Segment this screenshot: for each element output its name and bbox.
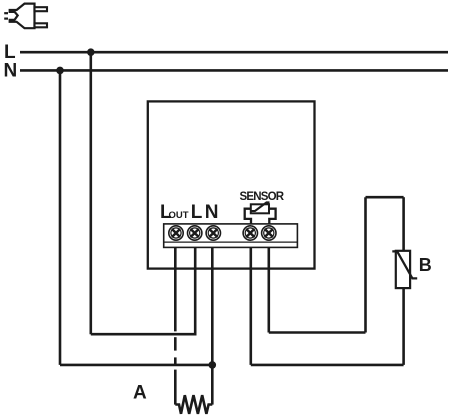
- sensor thermistor diagonal stroke: [252, 202, 270, 211]
- thermistor B diagonal stroke: [392, 251, 417, 278]
- wire: from N line down left side: [59, 70, 62, 365]
- terminal strip: [164, 224, 298, 248]
- wire: sensor inner run right: [269, 331, 366, 334]
- svg-text:N: N: [205, 202, 219, 223]
- svg-text:OUT: OUT: [169, 210, 189, 221]
- wire: terminal N down to load: [211, 247, 214, 405]
- svg-text:SENSOR: SENSOR: [240, 191, 285, 203]
- resistor A (heating load) zigzag: [175, 395, 212, 414]
- wire: sensor terminal 1 down: [250, 247, 253, 365]
- wire: sensor bottom run to B: [251, 364, 404, 367]
- svg-text:B: B: [419, 255, 432, 275]
- wire: sensor top run to B: [366, 196, 404, 199]
- wire: from L line down left side: [90, 52, 93, 334]
- terminal screw 3 (N): [206, 226, 220, 240]
- wire: B top lead: [402, 197, 405, 252]
- wire: sensor terminal 2 down: [267, 247, 270, 333]
- plug icon (disconnected mains plug): [4, 4, 47, 29]
- sensor thermistor bracket leads: [245, 209, 276, 224]
- svg-text:L: L: [191, 202, 203, 223]
- controller box: [148, 101, 315, 268]
- sensor thermistor body: [251, 204, 269, 213]
- wire: N horizontal run to node: [60, 364, 212, 367]
- wire: switched output Lout (dashed): [174, 247, 177, 405]
- wire: N supply line: [20, 69, 448, 72]
- terminal screw 2 (L): [188, 226, 202, 240]
- wire: L feed to terminal L: [91, 247, 195, 334]
- wire: L supply line: [20, 51, 448, 54]
- wire: sensor riser up: [364, 197, 367, 332]
- terminal screw 4 (sensor): [243, 226, 257, 240]
- terminal strip lower lip: [164, 241, 298, 243]
- terminal screw 5 (sensor): [262, 226, 276, 240]
- junction dot node N/load: [209, 361, 217, 369]
- junction dot on L line: [87, 48, 95, 56]
- thermistor B body: [396, 251, 410, 288]
- wire: B bottom lead: [402, 287, 405, 365]
- junction dot on N line: [56, 67, 64, 75]
- svg-text:N: N: [4, 61, 18, 82]
- terminal screw 1 (Lout): [169, 226, 183, 240]
- svg-text:A: A: [133, 382, 147, 403]
